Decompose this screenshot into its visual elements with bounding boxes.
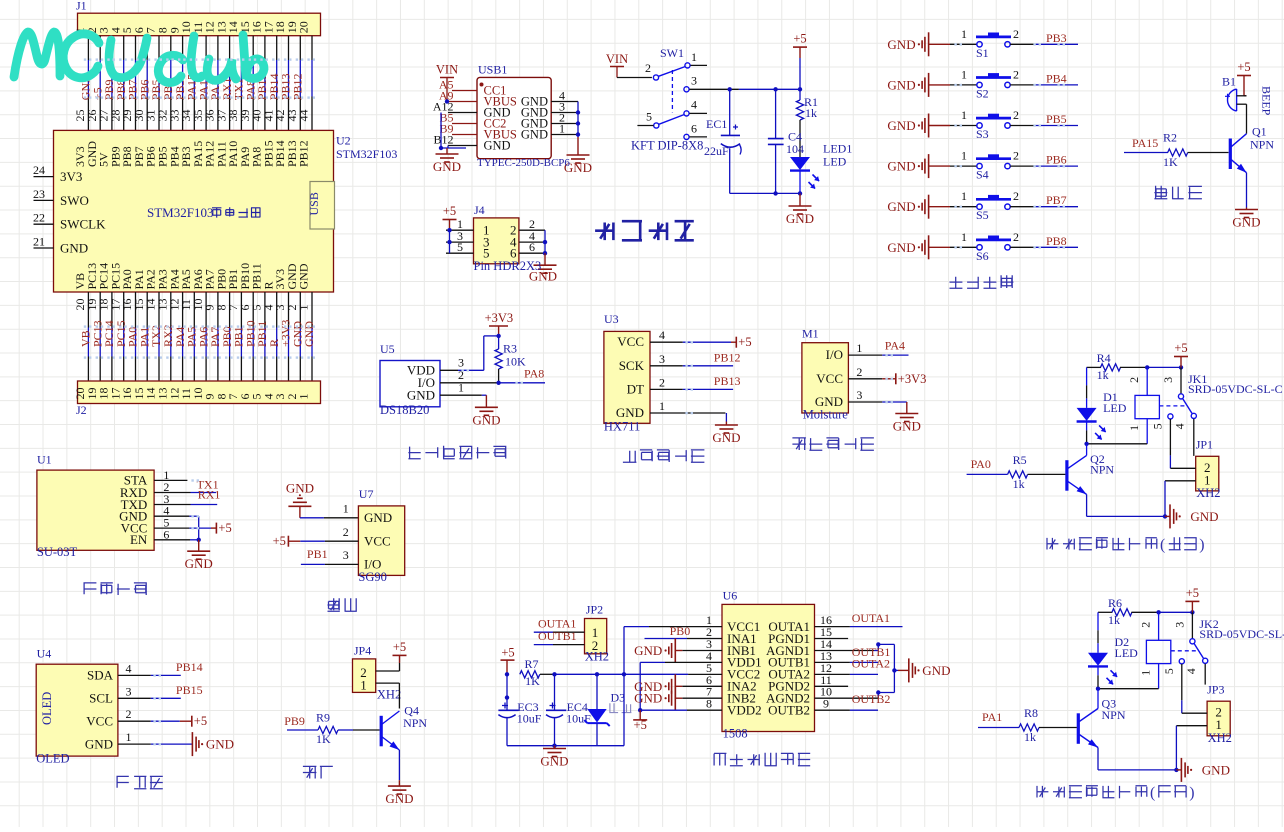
svg-text:B1: B1	[1222, 75, 1236, 89]
svg-text:+5: +5	[1174, 341, 1187, 355]
svg-text:+3V3: +3V3	[898, 372, 927, 386]
svg-text:PB4: PB4	[1046, 71, 1067, 85]
svg-text:3: 3	[691, 74, 697, 88]
svg-text:1: 1	[961, 149, 967, 163]
svg-text:GND: GND	[185, 556, 213, 571]
svg-text:21: 21	[33, 235, 45, 249]
svg-text:SRD-05VDC-SL-C: SRD-05VDC-SL-C	[1199, 627, 1284, 641]
svg-text:22uF: 22uF	[704, 144, 729, 158]
svg-text:104: 104	[786, 142, 804, 156]
svg-text:S2: S2	[976, 86, 989, 100]
svg-text:22: 22	[33, 211, 45, 225]
svg-text:LED: LED	[823, 155, 847, 169]
svg-text:XH2: XH2	[377, 687, 401, 701]
svg-text:1k: 1k	[1013, 477, 1025, 491]
svg-text:4: 4	[691, 98, 697, 112]
svg-text:+5: +5	[273, 534, 286, 548]
svg-text:SWCLK: SWCLK	[60, 217, 106, 232]
svg-text:VIN: VIN	[436, 63, 458, 77]
svg-text:LED: LED	[1103, 401, 1127, 415]
svg-text:10K: 10K	[505, 355, 526, 369]
svg-text:23: 23	[33, 187, 45, 201]
svg-text:SWO: SWO	[60, 193, 89, 208]
svg-text:3: 3	[659, 352, 665, 366]
svg-text:S1: S1	[976, 46, 989, 60]
svg-text:1: 1	[360, 678, 367, 693]
svg-text:PB13: PB13	[714, 374, 741, 388]
svg-text:+5: +5	[501, 645, 514, 659]
svg-text:PA8: PA8	[524, 367, 544, 381]
svg-text:GND: GND	[893, 419, 921, 434]
svg-text:(: (	[1160, 537, 1165, 554]
svg-text:PB12: PB12	[714, 350, 741, 364]
svg-text:1: 1	[961, 67, 967, 81]
svg-text:J2: J2	[76, 403, 87, 417]
svg-text:1: 1	[961, 230, 967, 244]
svg-text:GND: GND	[529, 268, 557, 283]
svg-text:GND: GND	[206, 737, 234, 752]
svg-text:1: 1	[691, 50, 697, 64]
svg-text:1k: 1k	[805, 106, 817, 120]
svg-text:): )	[1199, 537, 1204, 554]
svg-text:GND: GND	[364, 510, 392, 525]
svg-text:J4: J4	[474, 203, 485, 217]
svg-text:GND: GND	[786, 211, 814, 226]
svg-text:GND: GND	[616, 405, 644, 420]
svg-text:OUTA1: OUTA1	[852, 611, 890, 625]
svg-text:+5: +5	[443, 204, 456, 218]
svg-text:R2: R2	[1163, 131, 1177, 145]
svg-text:S5: S5	[976, 208, 989, 222]
svg-text:1: 1	[961, 27, 967, 41]
svg-text:XH2: XH2	[585, 650, 609, 664]
svg-text:): )	[1189, 785, 1194, 802]
svg-text:NPN: NPN	[1090, 463, 1114, 477]
svg-text:(: (	[1150, 785, 1155, 802]
svg-text:U4: U4	[37, 647, 52, 661]
svg-text:GND: GND	[887, 240, 915, 255]
svg-text:3: 3	[343, 548, 349, 562]
svg-text:J1: J1	[76, 0, 87, 13]
svg-text:M1: M1	[802, 327, 819, 341]
svg-text:DS18B20: DS18B20	[380, 403, 429, 417]
svg-text:U7: U7	[359, 487, 374, 501]
svg-text:1k: 1k	[1024, 730, 1036, 744]
svg-text:VCC: VCC	[617, 334, 644, 349]
svg-text:I/O: I/O	[826, 347, 843, 362]
svg-text:1: 1	[1139, 670, 1153, 676]
svg-text:PA1: PA1	[982, 710, 1002, 724]
svg-text:JP2: JP2	[586, 603, 603, 617]
svg-text:R9: R9	[316, 711, 330, 725]
svg-text:Q1: Q1	[1252, 125, 1267, 139]
svg-text:KFT DIP-8X8: KFT DIP-8X8	[631, 139, 703, 153]
svg-text:S6: S6	[976, 249, 989, 263]
svg-text:VDD2: VDD2	[727, 703, 762, 718]
svg-text:1: 1	[659, 399, 665, 413]
svg-text:2: 2	[1139, 622, 1153, 628]
svg-text:USB1: USB1	[478, 63, 507, 77]
svg-text:VCC: VCC	[816, 371, 843, 386]
svg-text:1: 1	[856, 341, 862, 355]
svg-text:GND: GND	[712, 430, 740, 445]
svg-text:S3: S3	[976, 127, 989, 141]
svg-text:+5: +5	[634, 718, 647, 732]
svg-text:EC1: EC1	[706, 117, 727, 131]
svg-text:2: 2	[126, 707, 132, 721]
svg-text:VIN: VIN	[606, 52, 628, 66]
svg-text:1k: 1k	[1108, 613, 1120, 627]
svg-text:+5: +5	[793, 32, 806, 46]
svg-text:GND: GND	[887, 159, 915, 174]
svg-text:U6: U6	[723, 589, 738, 603]
svg-text:+5: +5	[1237, 60, 1250, 74]
svg-text:RX1: RX1	[198, 487, 221, 501]
svg-text:HX711: HX711	[604, 419, 640, 433]
svg-text:2: 2	[1127, 377, 1141, 383]
svg-text:GND: GND	[1202, 762, 1230, 777]
svg-text:R4: R4	[1097, 351, 1111, 365]
svg-text:GND: GND	[60, 241, 88, 256]
svg-text:U3: U3	[604, 312, 619, 326]
svg-text:B12: B12	[433, 133, 453, 147]
svg-text:VCC: VCC	[364, 534, 391, 549]
svg-text:JP4: JP4	[354, 643, 371, 657]
svg-text:1K: 1K	[316, 732, 331, 746]
svg-text:20: 20	[297, 21, 311, 33]
svg-text:GND: GND	[484, 139, 511, 153]
svg-text:OUTA2: OUTA2	[852, 657, 890, 671]
svg-text:GND: GND	[540, 754, 568, 769]
svg-text:PB1: PB1	[307, 547, 328, 561]
svg-text:NPN: NPN	[1102, 708, 1126, 722]
svg-text:10uF: 10uF	[517, 711, 542, 725]
svg-text:R5: R5	[1013, 453, 1027, 467]
svg-text:JP3: JP3	[1207, 683, 1224, 697]
svg-text:NPN: NPN	[1250, 138, 1274, 152]
svg-text:XH2: XH2	[1208, 731, 1232, 745]
svg-text:+5: +5	[393, 640, 406, 654]
svg-text:D3: D3	[611, 691, 626, 705]
svg-text:PB15: PB15	[176, 683, 203, 697]
svg-text:TYPEC-250D-BCP6: TYPEC-250D-BCP6	[477, 157, 570, 169]
svg-text:VCC: VCC	[86, 714, 113, 729]
svg-text:Molsture: Molsture	[803, 407, 849, 421]
svg-text:GND: GND	[1232, 215, 1260, 230]
svg-text:PB5: PB5	[1046, 112, 1067, 126]
svg-text:PB9: PB9	[284, 714, 305, 728]
svg-text:PB8: PB8	[1046, 234, 1067, 248]
svg-text:5: 5	[1151, 423, 1165, 429]
svg-text:GND: GND	[302, 321, 316, 347]
svg-text:USB: USB	[307, 192, 321, 215]
svg-text:2: 2	[645, 61, 651, 75]
svg-text:SU-03T: SU-03T	[37, 545, 78, 559]
svg-text:SRD-05VDC-SL-C: SRD-05VDC-SL-C	[1188, 382, 1283, 396]
svg-text:GND: GND	[286, 480, 314, 495]
svg-text:GND: GND	[887, 37, 915, 52]
svg-text:GND: GND	[922, 663, 950, 678]
svg-text:GND: GND	[521, 128, 548, 142]
svg-text:+5: +5	[218, 521, 231, 535]
svg-text:1: 1	[126, 730, 132, 744]
svg-text:OLED: OLED	[36, 751, 69, 765]
svg-text:1: 1	[1127, 425, 1141, 431]
svg-text:2: 2	[1013, 189, 1019, 203]
svg-text:PA0: PA0	[971, 457, 991, 471]
svg-text:GND: GND	[297, 263, 311, 289]
svg-text:R7: R7	[525, 657, 539, 671]
svg-text:OUTB2: OUTB2	[852, 692, 891, 706]
svg-text:2: 2	[1013, 149, 1019, 163]
svg-text:GND: GND	[634, 643, 662, 658]
svg-text:1K: 1K	[525, 674, 540, 688]
svg-text:SG90: SG90	[358, 570, 386, 584]
svg-text:LED1: LED1	[823, 142, 852, 156]
svg-text:4: 4	[659, 328, 665, 342]
svg-text:6: 6	[529, 240, 535, 254]
svg-text:5: 5	[457, 240, 463, 254]
svg-text:+5: +5	[194, 714, 207, 728]
svg-text:SCL: SCL	[89, 691, 113, 706]
svg-text:GND: GND	[887, 118, 915, 133]
svg-text:R6: R6	[1108, 596, 1122, 610]
svg-text:OUTB2: OUTB2	[768, 703, 810, 718]
svg-text:2: 2	[1013, 67, 1019, 81]
svg-text:PA15: PA15	[1132, 136, 1158, 150]
svg-text:1K: 1K	[1163, 155, 1178, 169]
svg-text:GND: GND	[385, 791, 413, 806]
svg-text:1: 1	[297, 394, 311, 400]
svg-text:XH2: XH2	[1196, 486, 1220, 500]
svg-text:44: 44	[297, 110, 311, 122]
svg-text:4: 4	[126, 661, 132, 675]
svg-text:PB12: PB12	[291, 74, 305, 101]
svg-text:3: 3	[856, 388, 862, 402]
svg-text:1: 1	[961, 108, 967, 122]
svg-text:DT: DT	[627, 381, 644, 396]
svg-text:SDA: SDA	[87, 668, 114, 683]
svg-text:+3V3: +3V3	[485, 311, 514, 325]
svg-text:S4: S4	[976, 168, 989, 182]
svg-text:R3: R3	[503, 342, 517, 356]
svg-text:1k: 1k	[1097, 368, 1109, 382]
svg-text:EN: EN	[130, 532, 148, 547]
svg-text:5: 5	[1162, 668, 1176, 674]
svg-text:5: 5	[646, 110, 652, 124]
svg-text:2: 2	[659, 375, 665, 389]
svg-text:SW1: SW1	[660, 46, 684, 60]
svg-text:PB6: PB6	[1046, 153, 1067, 167]
svg-text:6: 6	[691, 122, 697, 136]
svg-text:4: 4	[1184, 668, 1198, 674]
svg-text:GND: GND	[634, 691, 662, 706]
svg-text:GND: GND	[1190, 509, 1218, 524]
svg-text:24: 24	[33, 163, 45, 177]
svg-text:1: 1	[343, 501, 349, 515]
svg-text:3: 3	[1172, 622, 1186, 628]
svg-text:JP1: JP1	[1196, 438, 1213, 452]
svg-text:1508: 1508	[723, 727, 748, 741]
svg-text:1: 1	[559, 122, 565, 136]
svg-text:STM32F103: STM32F103	[147, 205, 213, 220]
svg-text:2: 2	[1013, 230, 1019, 244]
svg-text:+5: +5	[738, 335, 751, 349]
svg-text:OLED: OLED	[40, 692, 54, 725]
svg-text:2: 2	[1013, 27, 1019, 41]
svg-text:GND: GND	[85, 736, 113, 751]
svg-text:PB14: PB14	[176, 660, 203, 674]
svg-text:PB3: PB3	[1046, 31, 1067, 45]
svg-text:GND: GND	[472, 412, 500, 427]
svg-text:1: 1	[297, 305, 311, 311]
svg-text:PA4: PA4	[885, 339, 905, 353]
svg-text:1: 1	[961, 189, 967, 203]
svg-text:STM32F103: STM32F103	[336, 147, 397, 161]
svg-text:3V3: 3V3	[60, 169, 82, 184]
svg-text:U1: U1	[37, 453, 52, 467]
svg-text:SCK: SCK	[619, 358, 645, 373]
svg-text:LED: LED	[1115, 646, 1139, 660]
svg-text:PB7: PB7	[1046, 193, 1067, 207]
svg-text:2: 2	[856, 365, 862, 379]
svg-text:U2: U2	[336, 134, 351, 148]
svg-text:2: 2	[343, 525, 349, 539]
svg-text:3: 3	[1161, 377, 1175, 383]
svg-text:R8: R8	[1024, 706, 1038, 720]
svg-text:PB0: PB0	[670, 624, 691, 638]
svg-text:4: 4	[1173, 423, 1187, 429]
svg-text:2: 2	[1013, 108, 1019, 122]
svg-text:+5: +5	[1186, 586, 1199, 600]
svg-text:BEEP: BEEP	[1260, 86, 1274, 116]
svg-text:GND: GND	[407, 387, 435, 402]
svg-text:GND: GND	[887, 77, 915, 92]
svg-text:U5: U5	[380, 342, 395, 356]
svg-text:OUTB1: OUTB1	[538, 629, 577, 643]
svg-text:3: 3	[126, 684, 132, 698]
svg-text:NPN: NPN	[403, 716, 427, 730]
svg-text:GND: GND	[433, 159, 461, 174]
svg-text:GND: GND	[887, 199, 915, 214]
svg-text:PB12: PB12	[297, 140, 311, 167]
